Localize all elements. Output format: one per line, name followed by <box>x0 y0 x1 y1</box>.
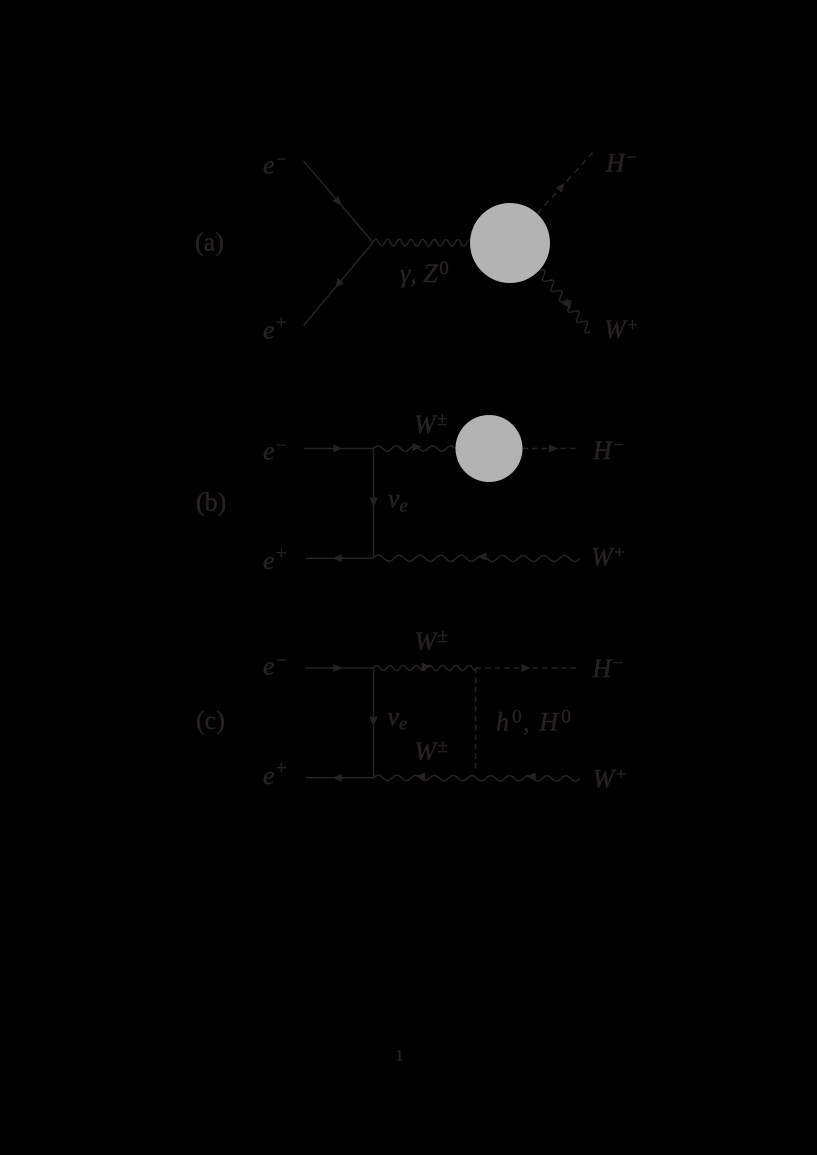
fermion line e+ (a) <box>304 243 373 326</box>
dashed H- line (a) <box>537 153 593 214</box>
arrow on dashed H- line (b) <box>549 445 558 453</box>
arrow on e+ line (b) <box>332 554 341 562</box>
arrow on dashed H- line (a) <box>556 183 565 193</box>
wavy W line top (c) <box>374 665 476 670</box>
arrow on e+ line (c) <box>332 774 341 782</box>
fermion line e+ (c) <box>306 777 374 779</box>
arrow 1 on bottom W+ wavy (c) <box>416 773 425 781</box>
arrow 2 on bottom W+ wavy (c) <box>526 773 535 781</box>
arrow on top W wavy (c) <box>422 663 431 671</box>
arrow on e- line (b) <box>333 445 342 453</box>
fermion line e- (c) <box>306 667 374 669</box>
arrow on e- line (c) <box>333 664 342 672</box>
dashed H- line (c) <box>476 667 580 669</box>
fermion line e+ (b) <box>306 557 374 559</box>
arrow on e- line (a) <box>333 196 342 206</box>
wavy W+ line bottom (c) <box>374 775 581 781</box>
blob vertex (a) <box>470 203 550 283</box>
dashed H- line (b) <box>523 448 581 450</box>
arrow on dashed H- line (c) <box>521 664 530 672</box>
svg-text:1: 1 <box>396 1048 404 1065</box>
blob vertex (b) <box>456 415 523 482</box>
neutrino propagator (b) <box>373 449 375 559</box>
dashed higgs propagator (c) <box>475 668 477 771</box>
fermion line e- (b) <box>304 448 373 450</box>
arrow on e+ line (a) <box>335 278 344 288</box>
arrow on W+ wavy (b) <box>477 553 486 561</box>
photon/Z wavy propagator (a) <box>373 239 470 246</box>
wavy W+ line (a) <box>540 270 591 333</box>
svg-text:(a): (a) <box>195 228 224 257</box>
arrow on neutrino line (b) <box>370 498 378 507</box>
wavy W line to blob (b) <box>374 446 456 451</box>
arrow on neutrino line (c) <box>370 717 378 726</box>
arrow on W+ wavy (a) <box>562 299 571 309</box>
neutrino propagator (c) <box>373 668 375 778</box>
arrow on W wavy (b) <box>412 443 421 451</box>
fermion line e- (a) <box>304 161 373 243</box>
svg-text:(c): (c) <box>196 706 225 735</box>
wavy W+ line (b) <box>374 555 581 562</box>
svg-text:(b): (b) <box>196 488 226 517</box>
